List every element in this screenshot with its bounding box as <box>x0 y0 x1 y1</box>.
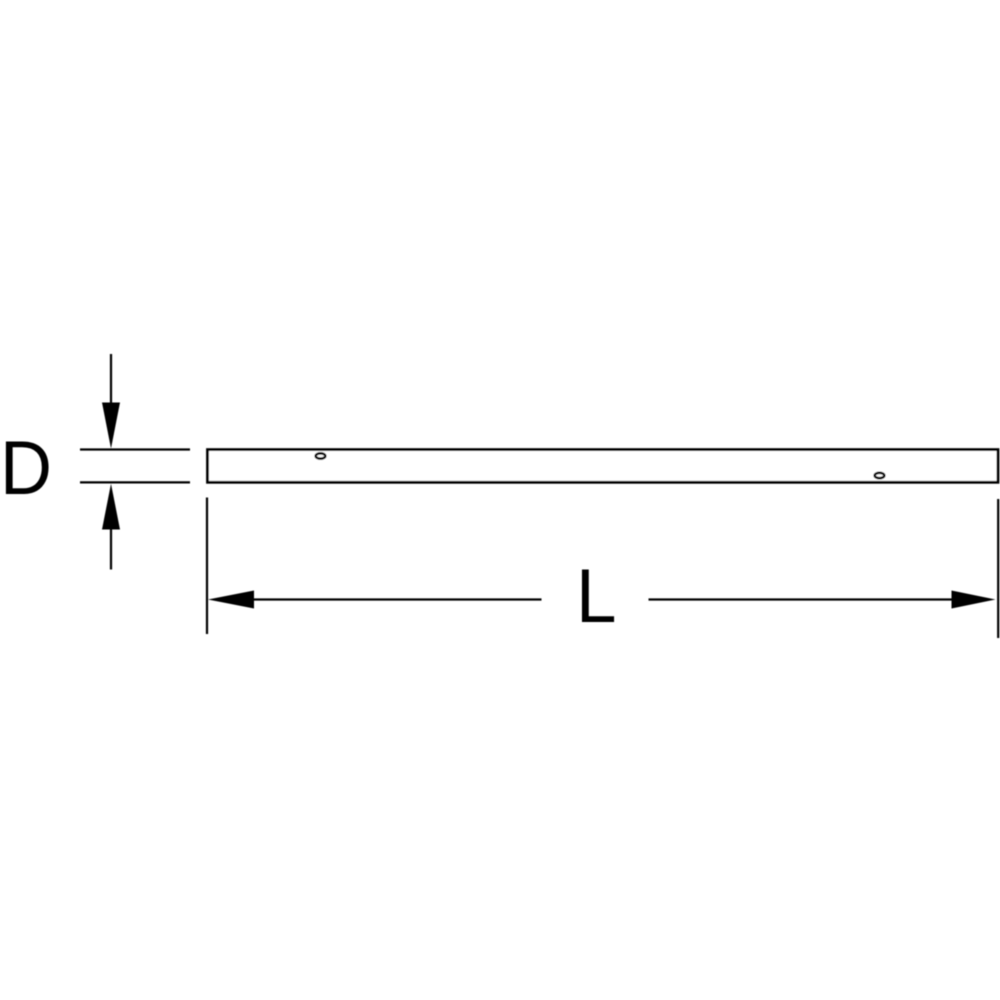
svg-text:L: L <box>576 554 617 639</box>
svg-text:D: D <box>0 426 52 511</box>
